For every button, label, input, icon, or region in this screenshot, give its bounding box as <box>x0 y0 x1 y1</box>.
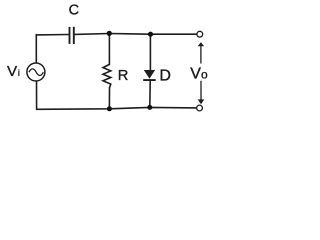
svg-text:D: D <box>159 68 171 85</box>
source Vi circle <box>27 63 45 81</box>
diode D (triangle + cathode bar) <box>143 70 156 81</box>
svg-text:R: R <box>118 68 129 84</box>
Vo arrow up <box>198 42 205 63</box>
wire left vertical lower (source to bottom rail) <box>36 81 38 110</box>
wire diode branch top <box>149 34 151 70</box>
wire diode branch bottom <box>149 82 151 108</box>
wire left vertical upper (corner to source) <box>35 35 37 64</box>
wire bottom rail <box>37 107 197 109</box>
capacitor C plates <box>70 27 74 44</box>
svg-text:Vo: Vo <box>190 65 208 82</box>
output terminal bottom (open circle) <box>197 105 203 111</box>
junction dot bottom diode <box>147 105 152 110</box>
wire resistor branch top <box>108 34 110 65</box>
Vo arrow down <box>198 81 205 104</box>
junction dot top diode <box>148 32 153 37</box>
junction dot top resistor <box>107 31 112 36</box>
output terminal top (open circle) <box>197 31 203 37</box>
wire resistor branch bottom <box>108 88 110 109</box>
wire top left (corner to capacitor) <box>36 34 68 37</box>
source sine wave <box>29 69 43 76</box>
resistor R <box>103 64 111 87</box>
wire top middle-right (capacitor to output terminal) <box>75 33 197 36</box>
junction dot bottom resistor <box>107 106 112 111</box>
svg-text:C: C <box>69 2 79 18</box>
